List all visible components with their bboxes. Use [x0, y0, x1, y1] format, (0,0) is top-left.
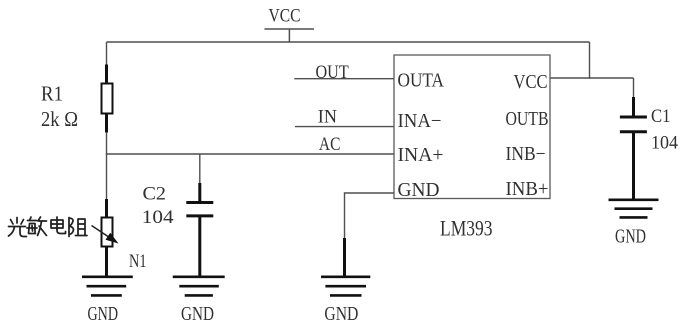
svg-text:GND: GND [398, 179, 440, 201]
wire node OUT stub to OUTA [294, 78, 394, 80]
label leader arrow to photoresistor [92, 226, 119, 244]
photoresistor N1 [102, 199, 113, 277]
svg-text:104: 104 [651, 133, 678, 154]
svg-text:VCC: VCC [514, 71, 548, 93]
op-amp U1 LM393 body [394, 55, 550, 199]
glyph min [27, 217, 47, 236]
wire left branch from rail to R1 [106, 42, 108, 65]
svg-text:C1: C1 [651, 106, 671, 127]
capacitor C2 [186, 183, 213, 277]
svg-text:LM393: LM393 [440, 216, 493, 241]
wire top VCC rail [107, 41, 590, 43]
wire VCC pin stub to C1 [550, 77, 634, 79]
svg-text:OUTB: OUTB [506, 108, 549, 130]
svg-text:INB−: INB− [506, 143, 546, 165]
label C1 value [651, 106, 678, 154]
svg-text:OUT: OUT [316, 62, 350, 83]
svg-text:INA−: INA− [398, 110, 442, 132]
svg-text:IN: IN [318, 107, 337, 128]
ground under C2 [173, 277, 225, 296]
wire down to C1 [633, 78, 635, 98]
svg-text:VCC: VCC [269, 6, 301, 27]
svg-text:AC: AC [319, 134, 341, 155]
VCC power symbol [265, 6, 315, 43]
svg-text:INA+: INA+ [398, 144, 444, 166]
glyph guang [9, 218, 27, 237]
svg-text:2k Ω: 2k Ω [41, 107, 78, 131]
label C2 value [142, 184, 174, 228]
wire node AC down to C2 [199, 154, 201, 184]
resistor R1 [102, 65, 113, 133]
svg-text:104: 104 [142, 207, 174, 228]
wire GND pin to ground [345, 193, 395, 239]
wire node AC down to photoresistor [106, 154, 108, 200]
svg-text:R1: R1 [41, 82, 63, 106]
ground under photoresistor [82, 277, 133, 296]
ground under C1 [609, 200, 659, 218]
wire node IN stub to INA- [295, 126, 394, 128]
svg-text:INB+: INB+ [506, 178, 549, 200]
svg-text:GND: GND [324, 303, 358, 325]
svg-text:OUTA: OUTA [398, 70, 445, 92]
svg-text:GND: GND [615, 226, 646, 248]
label R1 value [41, 82, 78, 132]
svg-text:C2: C2 [143, 184, 167, 205]
ground under IC [321, 277, 370, 296]
wire node AC horizontal to INA+ [106, 153, 394, 155]
wire R1 bottom to node AC [106, 132, 108, 154]
glyph dian [51, 217, 66, 234]
label photoresistor Chinese text (drawn glyphs) [9, 217, 88, 237]
svg-text:N1: N1 [129, 251, 147, 272]
svg-text:GND: GND [181, 303, 214, 325]
ground lead under IC [343, 238, 346, 277]
glyph zu [69, 218, 87, 237]
capacitor C1 [620, 97, 647, 200]
wire top rail drop to VCC stub [589, 42, 591, 79]
svg-text:GND: GND [88, 303, 119, 325]
